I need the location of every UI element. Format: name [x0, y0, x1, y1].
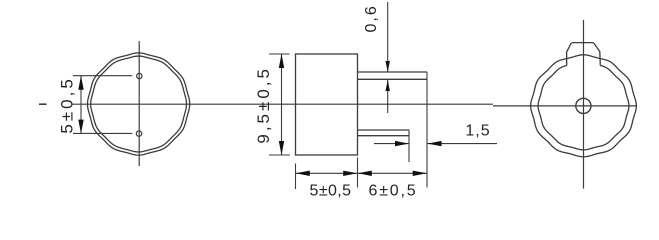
dim 9,5 extension bottom [269, 154, 290, 156]
svg-text:5±0,5: 5±0,5 [310, 183, 352, 200]
dim 9,5 arrows [279, 54, 284, 68]
dim 5±0,5 left view arrows [78, 76, 83, 90]
right view center hole [576, 98, 591, 113]
top pin lower edge [358, 78, 428, 80]
right view vertical centerline [583, 20, 585, 189]
left view horizontal centerline dash [39, 103, 47, 105]
top pin upper edge [358, 71, 428, 73]
hole top [137, 73, 142, 78]
dim 1,5 arrows [395, 141, 409, 146]
bottom pin end / extension [408, 130, 410, 162]
bottom dimension line [296, 172, 428, 174]
dim 0,6 arrows [386, 61, 390, 72]
extension line top hole [73, 75, 132, 77]
svg-text:6±0,5: 6±0,5 [369, 183, 418, 200]
dim 0,6 lower leader [387, 80, 389, 113]
bottom pin upper edge [358, 129, 410, 131]
svg-text:1,5: 1,5 [465, 123, 490, 140]
left view: buzzer front face, lobed shell outline [87, 53, 189, 155]
dim 9,5 extension top [269, 53, 290, 55]
bottom dim arrows 5±0,5 [296, 171, 310, 176]
bottom dims extension at body right [357, 158, 359, 188]
left view inner rim [91, 56, 187, 152]
dim 1,5 left leader [374, 143, 409, 145]
svg-text:5±0,5: 5±0,5 [57, 76, 76, 133]
common horizontal axis centerline left+middle [72, 103, 493, 105]
middle view body rectangle [296, 54, 358, 155]
right view horizontal centerline [493, 105, 637, 107]
bottom dim arrows 6±0,5 [358, 171, 372, 176]
bottom pin lower edge [358, 135, 410, 137]
bottom dims extension at body left [295, 164, 297, 190]
top pin end / extension line [426, 72, 428, 188]
left view vertical centerline [138, 41, 140, 166]
extension line bottom hole [73, 132, 132, 134]
svg-text:0,6: 0,6 [363, 4, 380, 32]
dim 0,6 upper leader [387, 2, 389, 72]
dim 1,5 right leader [428, 143, 498, 145]
right view outer lobed shell [531, 55, 637, 157]
svg-text:9,5±0,5: 9,5±0,5 [254, 66, 273, 144]
hole bottom [136, 131, 141, 136]
right view top tab bump [567, 43, 601, 66]
dim 9,5 line [281, 54, 283, 155]
right view inner rim arc [538, 65, 629, 149]
dimension line 5±0,5 left view [80, 76, 82, 133]
